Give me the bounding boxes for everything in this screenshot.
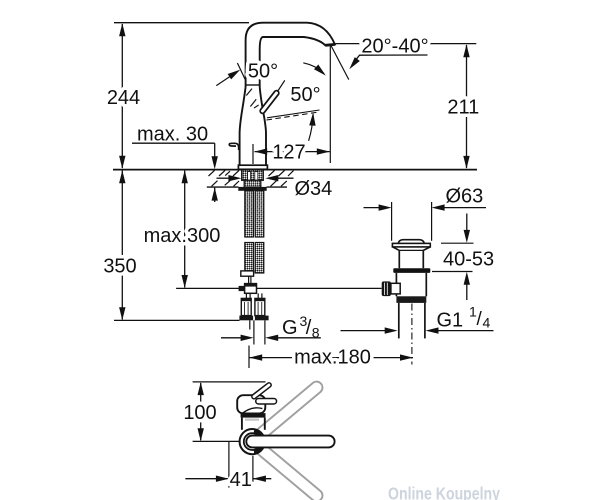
dimension 40-53 xyxy=(432,214,494,301)
spout joint line xyxy=(246,84,260,86)
svg-text:G: G xyxy=(282,317,298,339)
angle label 50 (lever swing) xyxy=(254,84,321,141)
drain body xyxy=(395,273,397,296)
svg-text:50°: 50° xyxy=(248,61,278,83)
drain pop-up cap xyxy=(398,240,424,244)
stub below left connector xyxy=(249,320,251,329)
ghost spout position upper xyxy=(252,388,316,442)
svg-text:211: 211 xyxy=(447,97,479,119)
dimension 127 xyxy=(253,142,330,165)
base circle inner ring xyxy=(244,433,261,450)
spout tip extension line xyxy=(329,45,331,163)
svg-text:G1: G1 xyxy=(437,310,464,332)
grohe marking xyxy=(245,418,259,420)
spout outlet face xyxy=(325,43,335,47)
dimension G1 1/4 xyxy=(341,304,494,334)
lever top view xyxy=(254,385,269,397)
outlet angle line xyxy=(331,45,349,80)
svg-text:max.300: max.300 xyxy=(144,225,221,247)
svg-text:40-53: 40-53 xyxy=(443,248,494,270)
ghost spout position lower xyxy=(252,442,316,496)
svg-text:Ø34: Ø34 xyxy=(295,178,333,200)
dimension G 3/8 xyxy=(221,313,321,341)
pop-up rod vertical xyxy=(248,276,250,283)
handle lever xyxy=(263,93,277,111)
cartridge collar dark band xyxy=(241,413,266,418)
svg-text:Ø63: Ø63 xyxy=(446,186,484,208)
G3/8 connector left xyxy=(245,293,247,298)
spout top view xyxy=(252,435,329,449)
svg-text:350: 350 xyxy=(103,256,136,278)
dimension 41 xyxy=(185,442,271,492)
pop-up rod horizontal xyxy=(176,287,382,289)
mounting shank xyxy=(242,170,263,180)
spout and riser xyxy=(246,23,335,87)
angle label 50 (lever raise) xyxy=(216,61,278,86)
hose end box xyxy=(241,271,254,276)
cartridge body top view xyxy=(237,395,265,413)
base circle bold arc xyxy=(254,431,263,452)
swivel arc arrow xyxy=(303,63,324,74)
svg-text:Online Koupelny: Online Koupelny xyxy=(388,484,500,500)
deck bottom line xyxy=(207,186,239,188)
svg-text:41: 41 xyxy=(230,469,252,491)
svg-text:244: 244 xyxy=(107,87,140,109)
extension line at outlet level xyxy=(336,43,477,45)
dimension 211 xyxy=(447,44,479,169)
lever tip leader xyxy=(278,80,285,91)
svg-text:4: 4 xyxy=(483,315,491,331)
dimension 244 xyxy=(107,23,140,169)
rod coupler xyxy=(239,286,245,291)
350 bottom extension line xyxy=(114,319,240,321)
svg-text:max. 30: max. 30 xyxy=(137,124,208,146)
angle label 20-40 xyxy=(347,36,429,72)
neck top view xyxy=(241,418,243,430)
G3/8 connector right xyxy=(257,293,259,298)
G3/8 extension lines xyxy=(253,320,255,344)
mounting nut xyxy=(238,187,266,191)
base flange xyxy=(238,165,267,169)
dimension 350 xyxy=(103,170,136,320)
supply hoses lower segment xyxy=(245,243,254,272)
pivot pin top view xyxy=(259,398,274,405)
drain seal ring xyxy=(393,268,430,273)
drain knob xyxy=(382,281,391,296)
drain flange xyxy=(392,243,430,247)
pull-rod knob xyxy=(229,143,238,150)
dimension Ø63 xyxy=(364,186,487,241)
svg-text:max.180: max.180 xyxy=(294,347,371,369)
drain centerline xyxy=(411,304,413,365)
drain neck xyxy=(399,249,423,251)
faucet body xyxy=(240,87,266,165)
body highlight ticks xyxy=(246,89,252,96)
dimension max.300 xyxy=(144,170,221,288)
deck hatching xyxy=(209,170,294,186)
top extension line xyxy=(114,22,249,24)
base circle top view xyxy=(240,429,265,454)
svg-text:100: 100 xyxy=(183,402,216,424)
dimension 100 xyxy=(183,382,265,442)
dimension Ø34 xyxy=(217,175,333,200)
svg-text:50°: 50° xyxy=(290,84,320,106)
dimension max.180 xyxy=(249,346,413,369)
dimension max. 30 xyxy=(132,124,218,203)
svg-text:127: 127 xyxy=(272,142,305,164)
svg-text:8: 8 xyxy=(312,325,320,341)
deck line xyxy=(113,169,477,171)
supply hoses upper segment xyxy=(245,191,254,237)
drain tailpipe xyxy=(398,303,400,339)
drain lock nut xyxy=(396,296,426,303)
